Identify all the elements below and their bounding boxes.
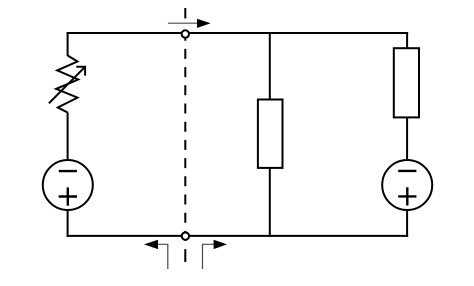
wire left branch top xyxy=(67,32,69,56)
wire R1 to V1 xyxy=(67,113,69,162)
source V1 plus xyxy=(59,187,77,205)
wire top rail xyxy=(67,32,409,34)
wire R3 to V2 xyxy=(406,117,408,161)
dashed cut line xyxy=(184,8,186,262)
resistor R1 (variable, zigzag) xyxy=(56,56,78,113)
current arrow I top xyxy=(168,19,211,28)
source V2 circle xyxy=(382,160,432,210)
node B (bottom) xyxy=(182,232,189,239)
wire right branch top xyxy=(406,32,408,49)
source V2 plus xyxy=(398,187,416,205)
wire V2 to bottom rail xyxy=(406,210,408,237)
current arrow I1 (bottom left) xyxy=(144,240,168,269)
wire V1 to bottom rail xyxy=(67,210,69,237)
node A (top) xyxy=(182,30,189,37)
source V1 minus xyxy=(59,170,77,172)
wire bottom rail xyxy=(67,235,409,237)
wire middle branch top xyxy=(269,32,271,100)
wire middle branch bottom xyxy=(269,168,271,237)
source V2 minus xyxy=(398,170,416,172)
resistor R2 (box) xyxy=(258,100,283,168)
current arrow I2 (bottom right) xyxy=(203,240,228,269)
source V1 circle xyxy=(43,160,93,210)
resistor R3 (box) xyxy=(394,48,419,117)
resistor R1 wiper arrow xyxy=(49,67,85,104)
